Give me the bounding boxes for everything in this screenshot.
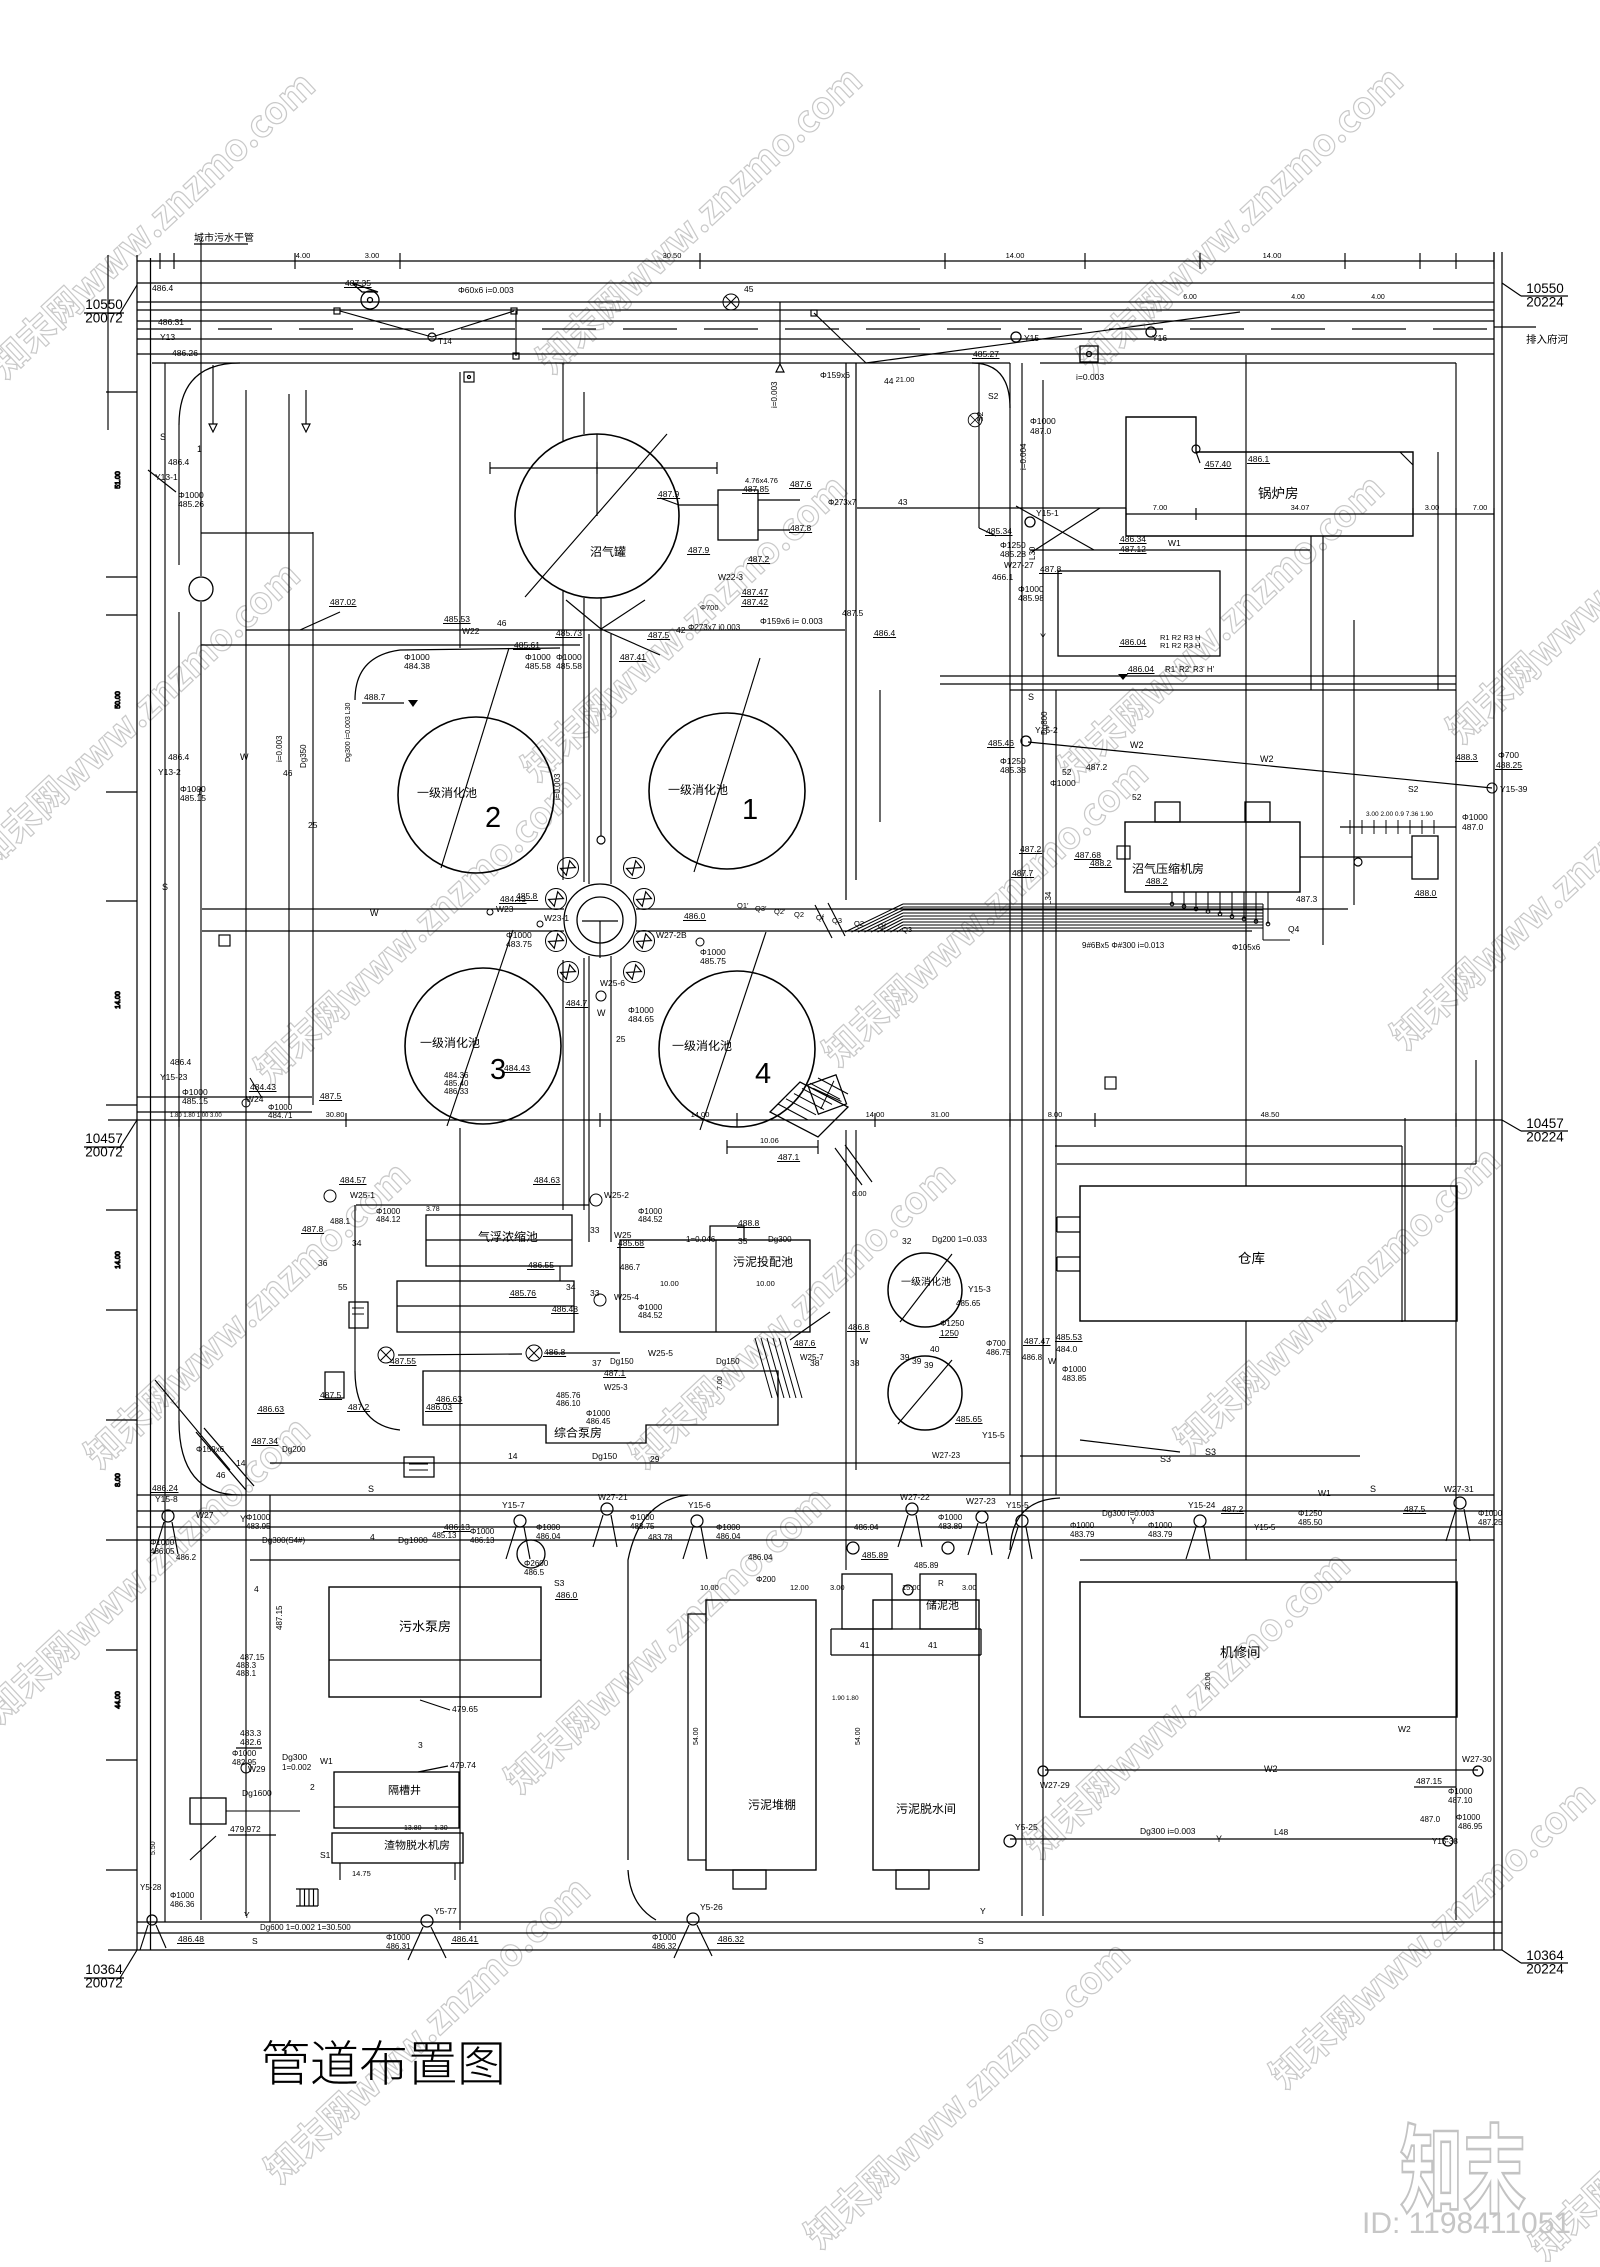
svg-text:Y: Y [244, 1910, 250, 1920]
svg-text:Φ1000: Φ1000 [938, 1513, 963, 1522]
svg-text:1250: 1250 [940, 1328, 959, 1338]
svg-text:484.43: 484.43 [504, 1063, 530, 1073]
svg-text:Q3′: Q3′ [755, 904, 767, 913]
svg-text:4: 4 [755, 1058, 771, 1090]
svg-text:487.9: 487.9 [688, 545, 710, 555]
svg-text:2: 2 [310, 1782, 315, 1792]
svg-text:Φ1000: Φ1000 [536, 1523, 561, 1532]
svg-text:i=0.003: i=0.003 [1076, 372, 1104, 382]
svg-text:20.00: 20.00 [1205, 1672, 1212, 1690]
svg-text:Q2: Q2 [794, 910, 804, 919]
svg-text:S: S [1028, 692, 1034, 702]
svg-text:14.00: 14.00 [1263, 251, 1282, 260]
svg-text:14: 14 [508, 1451, 518, 1461]
svg-text:Dg300 i=0.003: Dg300 i=0.003 [1140, 1826, 1196, 1836]
svg-text:Dg800: Dg800 [1040, 711, 1049, 735]
svg-text:20072: 20072 [85, 1976, 123, 1991]
svg-text:W27-21: W27-21 [598, 1492, 628, 1502]
svg-text:14.75: 14.75 [352, 1869, 371, 1878]
svg-text:Φ700: Φ700 [986, 1339, 1006, 1348]
svg-text:466.1: 466.1 [992, 572, 1014, 582]
diagonals near Y15-1 [1032, 508, 1100, 552]
svg-text:35: 35 [738, 1236, 748, 1246]
svg-text:487.0: 487.0 [1462, 822, 1484, 832]
svg-text:1=0.046: 1=0.046 [686, 1235, 716, 1244]
svg-text:486.13: 486.13 [444, 1522, 470, 1532]
cross channels [202, 908, 564, 910]
svg-text:Φ1000: Φ1000 [1478, 1509, 1503, 1518]
svg-text:Y15-8: Y15-8 [155, 1494, 178, 1504]
svg-text:484.7: 484.7 [566, 998, 588, 1008]
svg-text:486.95: 486.95 [1458, 1822, 1483, 1831]
svg-text:486.48: 486.48 [552, 1304, 578, 1314]
svg-text:Y13: Y13 [160, 332, 175, 342]
svg-text:486.0: 486.0 [684, 911, 706, 921]
svg-text:488.25: 488.25 [1496, 760, 1522, 770]
svg-text:483.85: 483.85 [1062, 1374, 1087, 1383]
svg-text:Dg150: Dg150 [716, 1357, 740, 1366]
svg-text:W1: W1 [320, 1756, 333, 1766]
svg-text:Φ1000: Φ1000 [1050, 778, 1076, 788]
svg-text:12.00: 12.00 [790, 1583, 809, 1592]
svg-text:10.00: 10.00 [756, 1279, 775, 1288]
svg-text:Φ60x6 i=0.003: Φ60x6 i=0.003 [458, 285, 514, 295]
svg-text:W1: W1 [1168, 538, 1181, 548]
svg-text:4: 4 [370, 1532, 375, 1542]
svg-text:3.00: 3.00 [365, 251, 380, 260]
svg-text:L30: L30 [1028, 546, 1037, 560]
svg-text:487.47: 487.47 [1024, 1336, 1050, 1346]
svg-text:485.53: 485.53 [1056, 1332, 1082, 1342]
left internal roads [178, 425, 180, 565]
svg-text:W27-30: W27-30 [1462, 1754, 1492, 1764]
svg-text:20072: 20072 [85, 1145, 123, 1160]
svg-text:485.76: 485.76 [510, 1288, 536, 1298]
svg-text:W27-22: W27-22 [900, 1492, 930, 1502]
svg-text:S2: S2 [988, 391, 999, 401]
svg-text:487.5: 487.5 [648, 630, 670, 640]
svg-text:486.45: 486.45 [586, 1417, 611, 1426]
svg-text:Q1′: Q1′ [737, 901, 749, 910]
svg-text:486.8: 486.8 [848, 1322, 870, 1332]
svg-text:2: 2 [485, 802, 501, 834]
svg-text:S: S [1370, 1484, 1376, 1494]
digestion tank 4 [659, 971, 815, 1127]
svg-text:485.68: 485.68 [618, 1238, 644, 1248]
svg-text:Φ700: Φ700 [1498, 750, 1519, 760]
svg-text:485.98: 485.98 [1018, 593, 1044, 603]
svg-text:Φ1000: Φ1000 [652, 1933, 677, 1942]
svg-text:487.8: 487.8 [790, 523, 812, 533]
svg-text:Φ200: Φ200 [756, 1575, 776, 1584]
sludge dosing pool [620, 1240, 810, 1332]
svg-text:487.10: 487.10 [1448, 1796, 1473, 1805]
svg-text:Y15-23: Y15-23 [160, 1072, 188, 1082]
svg-text:487.47: 487.47 [742, 587, 768, 597]
svg-text:486.32: 486.32 [718, 1934, 744, 1944]
svg-text:46: 46 [216, 1470, 226, 1480]
svg-text:W25-6: W25-6 [600, 978, 625, 988]
svg-text:486.04: 486.04 [1120, 637, 1146, 647]
svg-text:46: 46 [283, 768, 293, 778]
svg-text:485.27: 485.27 [973, 349, 999, 359]
svg-text:487.3: 487.3 [1296, 894, 1318, 904]
svg-text:486.5: 486.5 [524, 1568, 545, 1577]
svg-text:Y15-6: Y15-6 [688, 1500, 711, 1510]
43 line to boiler [857, 507, 1126, 509]
svg-text:486.36: 486.36 [170, 1900, 195, 1909]
svg-text:Φ700: Φ700 [700, 603, 719, 612]
svg-text:Φ1000: Φ1000 [232, 1749, 257, 1758]
svg-text:55: 55 [338, 1282, 348, 1292]
svg-text:Φ1000: Φ1000 [470, 1527, 495, 1536]
svg-text:Dg1000: Dg1000 [398, 1535, 428, 1545]
svg-text:Dg300 i=0.003: Dg300 i=0.003 [1102, 1509, 1155, 1518]
svg-text:Y15-39: Y15-39 [1500, 784, 1528, 794]
svg-text:6.00: 6.00 [1183, 294, 1197, 301]
roads around bottom [628, 1495, 688, 1860]
svg-text:Q2: Q2 [854, 919, 864, 928]
svg-text:14.00: 14.00 [866, 1110, 885, 1119]
46 line (phi159) [246, 629, 845, 631]
svg-text:Y15-24: Y15-24 [1188, 1500, 1216, 1510]
svg-text:486.33: 486.33 [444, 1087, 469, 1096]
svg-text:Φ1000: Φ1000 [246, 1513, 271, 1522]
svg-text:15.00: 15.00 [902, 1583, 921, 1592]
svg-text:S3: S3 [1205, 1447, 1216, 1457]
svg-text:483.78: 483.78 [648, 1533, 673, 1542]
biogas tank circle (zhaoqiguan) [515, 434, 679, 598]
svg-text:486.13: 486.13 [470, 1536, 495, 1545]
svg-text:486.04: 486.04 [716, 1532, 741, 1541]
svg-text:Φ1000: Φ1000 [1456, 1813, 1481, 1822]
svg-text:Dg200 1=0.033: Dg200 1=0.033 [932, 1235, 987, 1244]
svg-text:485.13: 485.13 [432, 1531, 457, 1540]
svg-text:483.75: 483.75 [506, 939, 532, 949]
svg-text:25: 25 [616, 1034, 626, 1044]
small digestion circles [888, 1253, 962, 1327]
svg-text:486.4: 486.4 [168, 752, 190, 762]
svg-text:487.5: 487.5 [320, 1390, 342, 1400]
svg-text:486.34: 486.34 [1120, 534, 1146, 544]
svg-text:487.2: 487.2 [1222, 1504, 1244, 1514]
svg-text:Φ2600: Φ2600 [524, 1559, 549, 1568]
svg-text:W2: W2 [1260, 754, 1274, 764]
svg-text:W23: W23 [496, 904, 514, 914]
svg-text:487.12: 487.12 [1120, 544, 1146, 554]
border frame [136, 255, 138, 1950]
misc boxes [349, 1302, 368, 1328]
svg-text:W27-23: W27-23 [966, 1496, 996, 1506]
W2 long diagonal [1028, 742, 1492, 788]
svg-text:14.00: 14.00 [1006, 251, 1025, 260]
svg-text:488.8: 488.8 [738, 1218, 760, 1228]
svg-text:52: 52 [1132, 792, 1142, 802]
svg-text:W25-2: W25-2 [604, 1190, 629, 1200]
svg-text:485.53: 485.53 [444, 614, 470, 624]
svg-text:Y15-38: Y15-38 [1432, 1837, 1458, 1846]
svg-text:8.00: 8.00 [115, 1473, 122, 1487]
svg-text:Qf: Qf [816, 913, 825, 922]
svg-text:S: S [252, 1936, 258, 1946]
svg-text:485.89: 485.89 [862, 1550, 888, 1560]
machine repair [1080, 1582, 1457, 1717]
svg-text:486.8: 486.8 [1022, 1353, 1043, 1362]
svg-text:13.80: 13.80 [404, 1825, 422, 1832]
svg-text:3.00 2.00 0.9 7.36 1.90: 3.00 2.00 0.9 7.36 1.90 [1366, 811, 1433, 818]
svg-text:487.55: 487.55 [390, 1356, 416, 1366]
Dg150 line [270, 1462, 1010, 1464]
svg-text:3.78: 3.78 [426, 1206, 440, 1213]
svg-text:486.75: 486.75 [986, 1348, 1011, 1357]
svg-text:S3: S3 [554, 1578, 565, 1588]
svg-text:4: 4 [254, 1584, 259, 1594]
svg-text:Y: Y [1040, 632, 1046, 642]
sludge dewatering room [873, 1600, 979, 1870]
svg-text:10.06: 10.06 [760, 1136, 779, 1145]
svg-text:Dg150: Dg150 [592, 1451, 617, 1461]
svg-text:486.4: 486.4 [168, 457, 190, 467]
svg-text:486.04: 486.04 [748, 1553, 773, 1562]
svg-text:484.57: 484.57 [340, 1175, 366, 1185]
svg-text:Φ273x7 i0.003: Φ273x7 i0.003 [688, 623, 741, 632]
svg-text:L34: L34 [1044, 891, 1053, 905]
svg-text:485.75: 485.75 [700, 956, 726, 966]
svg-text:486.04: 486.04 [1128, 664, 1154, 674]
svg-text:W1: W1 [1318, 1488, 1331, 1498]
svg-text:487.34: 487.34 [252, 1436, 278, 1446]
svg-text:486.05: 486.05 [150, 1547, 175, 1556]
junction at 601,629 [588, 634, 590, 884]
svg-text:483.89: 483.89 [938, 1522, 963, 1531]
svg-text:41: 41 [928, 1640, 938, 1650]
svg-text:483.75: 483.75 [630, 1522, 655, 1531]
svg-text:486.0: 486.0 [556, 1590, 578, 1600]
svg-text:483.79: 483.79 [1148, 1530, 1173, 1539]
svg-text:Q4: Q4 [1288, 924, 1300, 934]
svg-text:487.5: 487.5 [1404, 1504, 1426, 1514]
svg-text:W23-1: W23-1 [544, 913, 569, 923]
svg-text:W22: W22 [462, 626, 480, 636]
svg-text:486.24: 486.24 [152, 1483, 178, 1493]
svg-text:479.972: 479.972 [230, 1824, 261, 1834]
svg-text:488.1: 488.1 [330, 1217, 351, 1226]
svg-text:484.43: 484.43 [250, 1082, 276, 1092]
svg-text:45: 45 [744, 284, 754, 294]
svg-text:4.00: 4.00 [1291, 294, 1305, 301]
warehouse [1080, 1186, 1457, 1321]
svg-text:Φ1000: Φ1000 [1062, 1365, 1087, 1374]
svg-text:40: 40 [930, 1344, 940, 1354]
top road band [137, 260, 1494, 262]
svg-text:6.00: 6.00 [852, 1189, 867, 1198]
svg-text:Φ1000: Φ1000 [1070, 1521, 1095, 1530]
svg-text:S: S [978, 1936, 984, 1946]
svg-text:484.52: 484.52 [638, 1311, 663, 1320]
svg-text:Dg300 i=0.003 L30: Dg300 i=0.003 L30 [345, 703, 352, 762]
boiler house [1126, 417, 1413, 536]
svg-text:9#6Bx5 Φ#300 i=0.013: 9#6Bx5 Φ#300 i=0.013 [1082, 941, 1165, 950]
svg-text:Φ159x6 i= 0.003: Φ159x6 i= 0.003 [760, 616, 823, 626]
svg-text:54.00: 54.00 [693, 1727, 700, 1745]
svg-text:Y15-1: Y15-1 [1036, 508, 1059, 518]
svg-text:1.80 1.80 1.00 3.00: 1.80 1.80 1.00 3.00 [170, 1113, 222, 1119]
svg-text:486.4: 486.4 [170, 1057, 192, 1067]
svg-text:483.79: 483.79 [1070, 1530, 1095, 1539]
svg-text:482.6: 482.6 [240, 1737, 262, 1747]
compressor house [1125, 822, 1300, 892]
svg-text:487.8: 487.8 [302, 1224, 324, 1234]
sludge shed [706, 1600, 816, 1870]
tank outlet box [718, 490, 758, 540]
svg-text:487.15: 487.15 [1416, 1776, 1442, 1786]
svg-text:484.0: 484.0 [1056, 1344, 1078, 1354]
svg-text:483.1: 483.1 [236, 1669, 257, 1678]
svg-text:485.34: 485.34 [986, 526, 1012, 536]
svg-text:1=0.002: 1=0.002 [282, 1763, 312, 1772]
svg-text:5.50: 5.50 [150, 1841, 157, 1855]
svg-text:485.58: 485.58 [556, 661, 582, 671]
svg-text:W: W [860, 1336, 868, 1346]
svg-text:3.00: 3.00 [830, 1583, 845, 1592]
svg-text:W25-7: W25-7 [800, 1353, 824, 1362]
svg-text:10.00: 10.00 [700, 1583, 719, 1592]
svg-text:Y15-3: Y15-3 [968, 1284, 991, 1294]
svg-text:487.6: 487.6 [794, 1338, 816, 1348]
svg-text:487.42: 487.42 [742, 597, 768, 607]
svg-text:W27-29: W27-29 [1040, 1780, 1070, 1790]
svg-text:484.12: 484.12 [376, 1215, 401, 1224]
svg-text:W25-3: W25-3 [604, 1383, 628, 1392]
svg-text:486.26: 486.26 [172, 348, 198, 358]
svg-text:W: W [370, 908, 379, 918]
grid separation well [334, 1772, 459, 1828]
svg-text:50.00: 50.00 [115, 691, 122, 709]
svg-text:486.31: 486.31 [386, 1942, 411, 1951]
svg-text:Y: Y [980, 1906, 986, 1916]
svg-text:29: 29 [650, 1454, 660, 1464]
svg-text:Φ1000: Φ1000 [630, 1513, 655, 1522]
svg-text:Q3: Q3 [902, 925, 912, 934]
svg-text:S: S [160, 432, 166, 442]
svg-text:486.63: 486.63 [436, 1394, 462, 1404]
svg-text:25: 25 [308, 820, 318, 830]
svg-text:Y13-1: Y13-1 [155, 472, 178, 482]
svg-text:W2: W2 [1264, 1764, 1278, 1774]
svg-text:484.43: 484.43 [500, 894, 526, 904]
svg-text:Q2′: Q2′ [774, 907, 786, 916]
svg-text:487.8: 487.8 [1040, 564, 1062, 574]
svg-text:487.0: 487.0 [1030, 426, 1052, 436]
svg-text:7.00: 7.00 [717, 1376, 724, 1390]
svg-text:Y15-5: Y15-5 [982, 1430, 1005, 1440]
svg-text:Dg300(S4#): Dg300(S4#) [262, 1536, 305, 1545]
svg-text:30.50: 30.50 [663, 251, 682, 260]
svg-text:Qf: Qf [878, 922, 887, 931]
roundabout ring [564, 884, 636, 956]
svg-text:487.2: 487.2 [348, 1402, 370, 1412]
svg-text:486.04: 486.04 [536, 1532, 561, 1541]
svg-text:485.26: 485.26 [178, 499, 204, 509]
svg-text:14.00: 14.00 [115, 991, 122, 1009]
sludge storage tanks [842, 1574, 892, 1629]
svg-text:W27-27: W27-27 [1004, 560, 1034, 570]
svg-text:3.00: 3.00 [1425, 503, 1440, 512]
svg-text:Y15-5: Y15-5 [1006, 1500, 1029, 1510]
svg-text:485.65: 485.65 [956, 1414, 982, 1424]
right verticals [1009, 363, 1011, 1495]
svg-text:7.00: 7.00 [1473, 503, 1488, 512]
long vertical x=460 [459, 372, 461, 648]
svg-text:486.63: 486.63 [258, 1404, 284, 1414]
svg-text:T14: T14 [438, 337, 452, 346]
svg-text:20224: 20224 [1526, 1962, 1564, 1977]
svg-text:486.41: 486.41 [452, 1934, 478, 1944]
svg-text:Φ1000: Φ1000 [150, 1538, 175, 1547]
svg-text:Y: Y [1216, 1834, 1222, 1844]
svg-text:Φ1000: Φ1000 [1462, 812, 1488, 822]
svg-text:Y5-77: Y5-77 [434, 1906, 457, 1916]
svg-text:20224: 20224 [1526, 295, 1564, 310]
svg-text:Φ1000: Φ1000 [386, 1933, 411, 1942]
air flotation thickener [426, 1215, 572, 1266]
svg-text:485.89: 485.89 [914, 1561, 939, 1570]
svg-text:Φ105x6: Φ105x6 [1232, 943, 1261, 952]
svg-text:487.2: 487.2 [748, 554, 770, 564]
svg-text:W27-23: W27-23 [932, 1451, 961, 1460]
svg-text:46: 46 [497, 618, 507, 628]
svg-text:R: R [938, 1579, 944, 1588]
svg-text:48.50: 48.50 [1261, 1110, 1280, 1119]
svg-text:1.30: 1.30 [434, 1825, 448, 1832]
left road arcs to S road [179, 1421, 240, 1495]
svg-text:488.0: 488.0 [1415, 888, 1437, 898]
svg-text:487.35: 487.35 [345, 278, 371, 288]
svg-text:S1: S1 [320, 1850, 331, 1860]
svg-text:4.00: 4.00 [1371, 294, 1385, 301]
svg-text:483.95: 483.95 [246, 1522, 271, 1531]
S2 drop to tank [978, 363, 980, 528]
svg-text:487.2: 487.2 [1086, 762, 1108, 772]
svg-text:33: 33 [590, 1225, 600, 1235]
svg-text:485.15: 485.15 [180, 793, 206, 803]
svg-text:486.7: 486.7 [620, 1263, 641, 1272]
svg-text:486.48: 486.48 [178, 1934, 204, 1944]
svg-text:486.10: 486.10 [556, 1399, 581, 1408]
svg-text:W25-1: W25-1 [350, 1190, 375, 1200]
svg-text:W25-4: W25-4 [614, 1292, 639, 1302]
svg-text:S2: S2 [1408, 784, 1419, 794]
svg-text:1.80: 1.80 [846, 1695, 859, 1702]
svg-text:457.40: 457.40 [1205, 459, 1231, 469]
svg-text:31.00: 31.00 [931, 1110, 950, 1119]
road arcs right of tanks [845, 363, 847, 900]
svg-text:36: 36 [318, 1258, 328, 1268]
svg-text:38: 38 [850, 1358, 860, 1368]
svg-text:39: 39 [912, 1356, 922, 1366]
svg-text:484.71: 484.71 [268, 1111, 293, 1120]
svg-text:S2: S2 [975, 411, 985, 422]
sewage pump house [329, 1587, 541, 1697]
svg-text:Φ1250: Φ1250 [940, 1319, 965, 1328]
svg-text:486.2: 486.2 [176, 1553, 197, 1562]
svg-text:34: 34 [566, 1282, 576, 1292]
svg-text:4.00: 4.00 [296, 251, 311, 260]
svg-text:487.5: 487.5 [320, 1091, 342, 1101]
svg-text:487.25: 487.25 [1478, 1518, 1503, 1527]
svg-text:Y16: Y16 [1152, 333, 1167, 343]
svg-text:W24: W24 [246, 1094, 264, 1104]
